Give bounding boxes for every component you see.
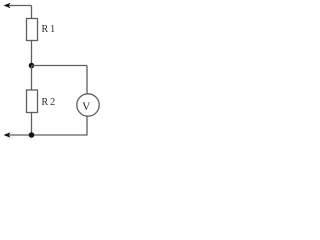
terminal arrow top-left bbox=[4, 3, 11, 8]
svg-text:R2: R2 bbox=[42, 97, 58, 108]
wire node A down into R2 bbox=[31, 66, 33, 91]
terminal arrow bottom-left bbox=[4, 132, 11, 137]
wire right vertical down to voltmeter bbox=[86, 66, 88, 95]
wire top horizontal from terminal to corner bbox=[6, 5, 32, 7]
wire R1 bottom to node A bbox=[31, 41, 33, 66]
wire top vertical into R1 bbox=[31, 6, 33, 19]
node A junction dot bbox=[29, 63, 35, 69]
wire bottom horizontal bbox=[6, 134, 88, 136]
voltmeter V1 bbox=[77, 94, 99, 116]
node B junction dot bbox=[29, 132, 35, 138]
wire voltmeter bottom to bottom corner bbox=[86, 116, 88, 135]
resistor R1 bbox=[27, 19, 38, 41]
wire node A to right corner bbox=[32, 65, 88, 67]
svg-text:V: V bbox=[82, 101, 91, 113]
wire R2 bottom to node B bbox=[31, 113, 33, 136]
resistor R2 bbox=[27, 90, 38, 113]
svg-text:R1: R1 bbox=[42, 24, 58, 35]
